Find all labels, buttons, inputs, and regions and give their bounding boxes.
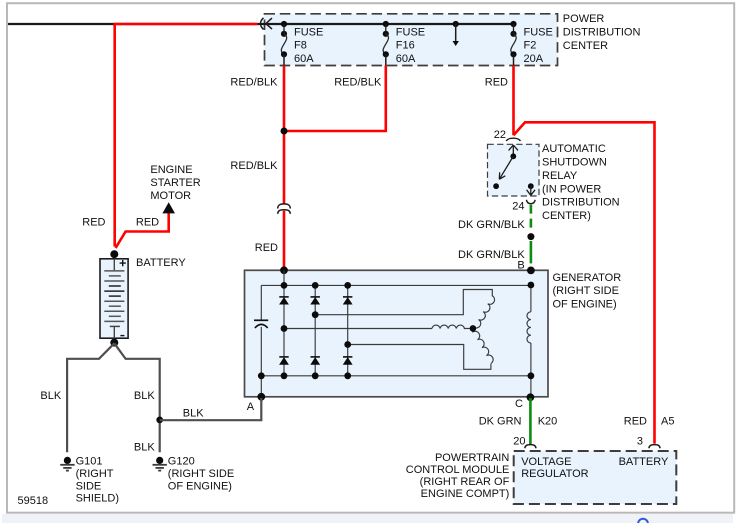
svg-text:(RIGHT: (RIGHT — [76, 468, 114, 480]
stator coil upper diagonal — [473, 296, 495, 329]
svg-text:RED/BLK: RED/BLK — [230, 160, 278, 172]
svg-text:SIDE: SIDE — [76, 480, 102, 492]
info icon bottom (clipped) — [638, 519, 648, 523]
svg-text:SHUTDOWN: SHUTDOWN — [542, 157, 607, 169]
wire: capacitor branch / terminal A leg — [260, 285, 262, 396]
label: RED (F2) — [485, 76, 508, 88]
label: pin 24 — [512, 201, 524, 213]
label: node A — [247, 401, 255, 413]
node C — [527, 393, 535, 401]
svg-text:B: B — [517, 260, 524, 272]
capacitor C — [254, 320, 268, 328]
svg-text:FUSE: FUSE — [396, 26, 425, 38]
svg-text:CONTROL MODULE: CONTROL MODULE — [406, 464, 510, 476]
node: BLK junction — [156, 417, 163, 424]
wire: RED branch to starter motor — [116, 213, 169, 248]
svg-text:DK GRN/BLK: DK GRN/BLK — [458, 219, 525, 231]
svg-text:BLK: BLK — [183, 408, 204, 420]
svg-text:RED: RED — [82, 217, 105, 229]
relay: output contact arrow down — [527, 183, 535, 195]
svg-text:C: C — [515, 398, 523, 410]
wire: field winding branch — [530, 285, 532, 397]
wire: BLK battery to G101 — [67, 343, 114, 452]
relay: movable contact arrow up — [509, 145, 518, 159]
field winding coil — [527, 312, 531, 343]
node A — [257, 393, 265, 401]
wire: BLK to generator A — [160, 398, 262, 420]
label: BLK (right) — [134, 390, 155, 402]
wire: RED/BLK from fuse F16 — [284, 66, 386, 132]
wire: DK GRN generator C to regulator 20 — [529, 398, 532, 444]
svg-text:RELAY: RELAY — [542, 170, 578, 182]
label: pin 20 — [513, 436, 525, 448]
svg-text:FUSE: FUSE — [294, 26, 323, 38]
svg-text:OF ENGINE): OF ENGINE) — [553, 299, 617, 311]
label: BLK (left) — [40, 390, 61, 402]
svg-text:(RIGHT REAR OF: (RIGHT REAR OF — [420, 476, 510, 488]
label: AUTOMATIC SHUTDOWN RELAY (IN POWER DISTRIBUTION CENTER) — [542, 143, 620, 222]
label: DK GRN/BLK lower — [458, 249, 525, 261]
svg-text:RED: RED — [255, 242, 278, 254]
svg-text:FUSE: FUSE — [524, 26, 553, 38]
Powertrain Control Module box — [514, 451, 677, 504]
ground G120 — [153, 457, 167, 471]
svg-text:CENTER): CENTER) — [542, 210, 591, 222]
svg-text:AUTOMATIC: AUTOMATIC — [542, 143, 606, 155]
svg-text:F2: F2 — [524, 40, 537, 52]
wire: rectifier leg 2 — [314, 285, 316, 375]
svg-text:ENGINE COMPT): ENGINE COMPT) — [421, 488, 510, 500]
svg-text:BLK: BLK — [40, 390, 61, 402]
svg-text:20: 20 — [513, 436, 525, 448]
wire: generator bottom rail — [261, 375, 531, 377]
svg-text:A: A — [247, 401, 255, 413]
svg-text:RED/BLK: RED/BLK — [230, 76, 278, 88]
label: GENERATOR (RIGHT SIDE OF ENGINE) — [553, 272, 622, 311]
node: red entry on generator — [280, 266, 288, 274]
label: RED/BLK (F8 upper) — [230, 76, 278, 88]
svg-text:MOTOR: MOTOR — [150, 190, 191, 202]
wire: RED/BLK from fuse F8 — [283, 66, 286, 268]
battery symbol — [100, 250, 128, 346]
terminal 24 connector arc — [526, 200, 535, 204]
diode D4 bottom — [279, 357, 289, 365]
wire: RED battery feed — [115, 24, 258, 247]
svg-text:60A: 60A — [294, 53, 314, 65]
label: G120 (RIGHT SIDE OF ENGINE) — [168, 456, 234, 493]
svg-text:BATTERY: BATTERY — [619, 456, 669, 468]
ground G101 — [60, 457, 74, 471]
svg-text:(RIGHT SIDE: (RIGHT SIDE — [168, 468, 234, 480]
label: node B — [517, 260, 524, 272]
label: RED (above generator) — [255, 242, 278, 254]
wire: rectifier leg 3 — [347, 285, 349, 375]
bottom strip below frame — [2, 514, 733, 523]
svg-text:DK GRN/BLK: DK GRN/BLK — [458, 249, 525, 261]
label: BATTERY — [136, 257, 186, 269]
svg-text:F16: F16 — [396, 40, 415, 52]
terminal 20 connector arc — [525, 445, 536, 449]
label: pin 3 — [637, 436, 643, 448]
label: RED (starter branch) — [136, 217, 159, 229]
wire: generator top rail — [261, 284, 531, 286]
Power Distribution Center box — [265, 14, 558, 66]
node B — [527, 267, 535, 275]
label: DK GRN/BLK upper — [458, 219, 525, 231]
Automatic Shutdown Relay box — [488, 144, 540, 196]
svg-text:DISTRIBUTION: DISTRIBUTION — [563, 27, 641, 39]
wire: RED from fuse F2 to relay 22 and battery A5 — [514, 66, 655, 444]
label: RED/BLK (F16) — [334, 76, 382, 88]
svg-text:POWERTRAIN: POWERTRAIN — [435, 452, 509, 464]
svg-text:ENGINE: ENGINE — [150, 164, 192, 176]
relay: switch blade — [493, 156, 513, 189]
svg-text:CENTER: CENTER — [563, 40, 608, 52]
svg-text:G101: G101 — [76, 456, 103, 468]
svg-text:DK GRN: DK GRN — [479, 415, 522, 427]
label: G101 (RIGHT SIDE SHIELD) — [76, 456, 119, 505]
svg-text:POWER: POWER — [563, 13, 605, 25]
terminal 3 connector arc — [649, 445, 660, 449]
svg-text:G120: G120 — [168, 456, 195, 468]
svg-text:DISTRIBUTION: DISTRIBUTION — [542, 197, 620, 209]
fuse F8 — [281, 21, 287, 66]
label: POWERTRAIN CONTROL MODULE (RIGHT REAR OF ENGINE COMPT) — [406, 452, 510, 500]
svg-text:(IN POWER: (IN POWER — [542, 183, 601, 195]
svg-text:BLK: BLK — [134, 442, 155, 454]
svg-text:60A: 60A — [396, 53, 416, 65]
svg-text:BATTERY: BATTERY — [136, 257, 186, 269]
label: BLK (lower) — [134, 442, 155, 454]
svg-text:24: 24 — [512, 201, 524, 213]
wire: rectifier leg 1 — [283, 270, 285, 376]
node dots on top rail — [281, 282, 535, 289]
label: ENGINE STARTER MOTOR — [150, 164, 200, 202]
wire: BLK battery to G120 — [114, 343, 159, 452]
terminal 22 connector arc — [506, 138, 520, 141]
Generator box — [245, 270, 549, 397]
node: junction F8/F16 — [281, 128, 288, 135]
label: circuit A5 — [661, 415, 674, 427]
in-line connector on RED/BLK wire — [278, 204, 291, 214]
svg-text:RED: RED — [624, 415, 647, 427]
label: diagram number 59518 — [18, 495, 49, 507]
svg-text:22: 22 — [494, 129, 506, 141]
svg-text:OF ENGINE): OF ENGINE) — [168, 480, 232, 492]
svg-text:RED/BLK: RED/BLK — [334, 76, 382, 88]
label: FUSE F2 20A — [524, 26, 553, 65]
svg-text:REGULATOR: REGULATOR — [521, 468, 588, 480]
wire: phase 3 to stator — [348, 345, 491, 370]
svg-text:59518: 59518 — [18, 495, 49, 507]
label: FUSE F16 60A — [396, 26, 425, 65]
label: VOLTAGE REGULATOR — [521, 456, 588, 480]
label: RED/BLK (F8 lower) — [230, 160, 278, 172]
svg-text:K20: K20 — [538, 415, 558, 427]
wire: DK GRN/BLK relay to generator B (dashed) — [527, 205, 534, 264]
diode D5 bottom — [310, 357, 320, 365]
svg-text:VOLTAGE: VOLTAGE — [521, 456, 571, 468]
diode D3 top — [343, 297, 353, 305]
node: stator Y center — [470, 325, 477, 332]
fuse F2 — [510, 21, 516, 66]
label: RED (battery left) — [82, 217, 105, 229]
label: BLK (horizontal) — [183, 408, 204, 420]
label: DK GRN — [479, 415, 522, 427]
node dots on bottom rail — [258, 372, 534, 379]
stator coil lower diagonal — [473, 328, 493, 363]
svg-text:(RIGHT SIDE: (RIGHT SIDE — [553, 285, 619, 297]
svg-text:F8: F8 — [294, 40, 307, 52]
svg-text:SHIELD): SHIELD) — [76, 493, 119, 505]
svg-text:3: 3 — [637, 436, 643, 448]
diode D6 bottom — [343, 357, 353, 365]
svg-text:STARTER: STARTER — [150, 177, 200, 189]
wire: top bus (black) — [8, 23, 514, 25]
svg-text:20A: 20A — [524, 53, 544, 65]
stator coil horizontal — [432, 325, 473, 328]
in-line connector on bus — [260, 18, 272, 30]
label: node C — [515, 398, 523, 410]
svg-text:A5: A5 — [661, 415, 674, 427]
wire: phase 2 to stator — [315, 290, 492, 315]
arrowhead: engine starter motor — [162, 202, 175, 213]
label: circuit K20 — [538, 415, 558, 427]
svg-text:RED: RED — [485, 76, 508, 88]
label: BATTERY (in PCM box) — [619, 456, 669, 468]
label: POWER DISTRIBUTION CENTER — [563, 13, 641, 52]
label: pin 22 — [494, 129, 506, 141]
svg-text:GENERATOR: GENERATOR — [553, 272, 622, 284]
diode D1 top — [279, 297, 289, 305]
svg-text:BLK: BLK — [134, 390, 155, 402]
svg-text:RED: RED — [136, 217, 159, 229]
label: RED (A5 wire) — [624, 415, 647, 427]
node dots: phase taps — [281, 311, 352, 348]
label: FUSE F8 60A — [294, 26, 323, 65]
diode D2 top — [310, 297, 320, 305]
fuse F16 — [383, 21, 389, 66]
bus continuation arrow in PDC — [453, 21, 459, 46]
wire: phase 1 to stator — [284, 328, 432, 330]
